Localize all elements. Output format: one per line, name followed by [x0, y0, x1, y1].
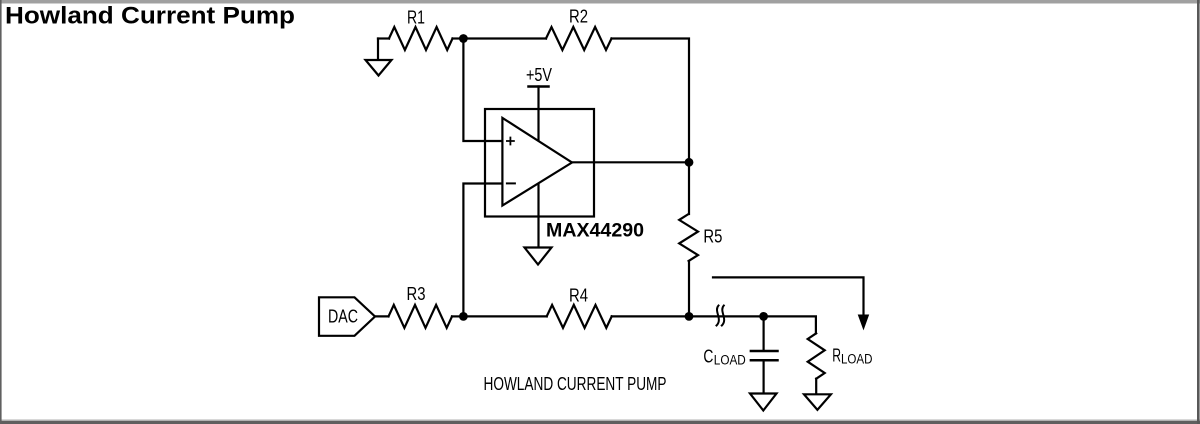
svg-text:R5: R5: [703, 227, 722, 247]
svg-text:R1: R1: [407, 7, 425, 27]
node (load junction): [759, 312, 768, 321]
wire (CLOAD to ground): [762, 360, 764, 393]
wire (R3 to node): [452, 315, 463, 317]
wire (node to R4): [463, 315, 546, 317]
ground (under R1): [377, 39, 379, 61]
resistor RLOAD: [808, 333, 825, 378]
svg-text:LOAD: LOAD: [714, 352, 746, 367]
svg-text:R: R: [832, 346, 841, 366]
svg-text:MAX44290: MAX44290: [546, 220, 644, 241]
pin -: [507, 182, 515, 184]
ground (under CLOAD): [750, 394, 777, 411]
capacitor CLOAD: [751, 350, 778, 353]
resistor R5: [679, 214, 698, 261]
svg-text:Howland Current Pump: Howland Current Pump: [5, 3, 295, 30]
svg-text:R2: R2: [569, 7, 588, 27]
wire (top node down to + input): [463, 39, 502, 142]
wire (node to load node, through break): [689, 315, 764, 317]
svg-text:C: C: [703, 346, 713, 366]
node (inverting input junction): [459, 312, 468, 321]
node (feedback junction): [685, 312, 694, 321]
wire break marks: [717, 306, 725, 326]
ground (under op-amp): [525, 248, 552, 265]
wire (R4 to feedback node): [612, 315, 689, 317]
power rail +5V (T-bar): [529, 85, 549, 88]
wire (node to R2): [463, 37, 546, 39]
DAC input symbol: [319, 297, 375, 336]
wire (RLOAD to ground): [815, 379, 817, 395]
pin +: [507, 138, 514, 145]
svg-text:DAC: DAC: [328, 307, 358, 327]
output current arrow: [713, 277, 864, 316]
wire (- input down to bottom node): [463, 184, 502, 317]
op-amp U1 box: [485, 109, 594, 217]
wire (R1 left lead): [378, 37, 389, 39]
resistor R3: [389, 305, 453, 328]
svg-text:+5V: +5V: [526, 65, 552, 85]
wire (output node to R5): [688, 162, 690, 214]
svg-text:HOWLAND CURRENT PUMP: HOWLAND CURRENT PUMP: [484, 374, 667, 394]
resistor R4: [547, 305, 612, 328]
wire (load node to RLOAD corner): [764, 316, 816, 333]
node (top junction): [459, 34, 468, 43]
wire (R5 to bottom node): [688, 261, 690, 316]
op-amp U1 triangle: [502, 118, 572, 206]
resistor R1: [389, 27, 453, 50]
ground (under RLOAD): [804, 394, 831, 410]
wire (R1 right lead to node): [453, 37, 464, 39]
wire (op-amp output): [572, 161, 689, 163]
svg-text:R3: R3: [407, 284, 426, 304]
frame borders: [0, 0, 1200, 4]
wire (load node down to CLOAD): [762, 316, 764, 350]
svg-text:R4: R4: [569, 286, 588, 306]
resistor R2: [546, 27, 612, 50]
wire (DAC to R3): [375, 315, 389, 317]
node (output junction): [685, 158, 694, 167]
wire (R2 to output node, with corner): [612, 39, 690, 163]
svg-text:LOAD: LOAD: [841, 352, 873, 367]
wire (supply vertical through op-amp): [537, 87, 539, 248]
